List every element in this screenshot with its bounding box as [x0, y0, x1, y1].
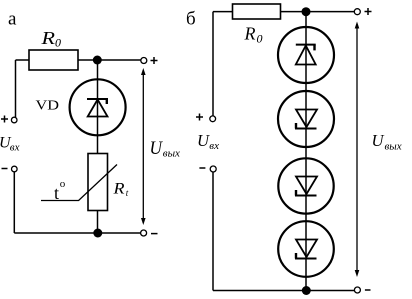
wire left vertical lower (b)	[212, 172, 214, 291]
svg-text:R: R	[244, 24, 256, 44]
wire center vertical (b)	[305, 12, 307, 291]
wire top-left (a)	[16, 59, 30, 61]
diode D2 cathode hook	[295, 123, 297, 129]
junction top (b)	[302, 7, 311, 16]
terminal + (b, right)	[354, 9, 360, 15]
diode D3 cathode hook	[295, 190, 297, 196]
label Rt	[112, 181, 128, 199]
wire left vertical lower (a)	[13, 172, 15, 233]
svg-text:U: U	[372, 131, 386, 150]
diode D4 triangle	[296, 240, 317, 258]
wire R0 to + terminal (b)	[281, 11, 355, 13]
measure line Uvyx (b)	[356, 24, 358, 274]
label R0 (a)	[40, 28, 61, 50]
measure line Uvyx (a)	[142, 70, 144, 223]
diode D4 cathode bar	[295, 258, 317, 260]
zener diode VD cathode hook	[106, 99, 108, 104]
minus sign (a, right)	[151, 233, 158, 235]
diode D2 triangle	[296, 110, 317, 128]
zener diode VD triangle	[88, 100, 108, 117]
thermistor Rt box	[88, 154, 108, 211]
svg-text:R: R	[40, 28, 55, 48]
diode D3 cathode bar	[295, 195, 317, 197]
wire left vertical upper (a)	[15, 60, 17, 117]
svg-text:t: t	[54, 183, 59, 203]
arrowhead down (a)	[141, 218, 146, 225]
terminal + (a, right)	[141, 58, 147, 64]
diode D4 cathode hook	[295, 253, 297, 259]
svg-text:0: 0	[55, 36, 61, 50]
svg-text:вх: вх	[209, 140, 219, 152]
terminal - (b, right)	[354, 287, 360, 293]
zener diode VD cathode bar	[87, 98, 108, 100]
diode D3 circle	[278, 158, 333, 213]
terminal + (a, left)	[11, 117, 17, 123]
diode D2 circle	[278, 91, 334, 147]
diode D1 cathode hook	[313, 45, 315, 51]
resistor R0 (b)	[233, 4, 281, 19]
svg-text:VD: VD	[36, 99, 60, 114]
terminal - (a, right)	[141, 230, 147, 236]
junction top (a)	[93, 56, 102, 65]
svg-text:вх: вх	[10, 141, 20, 153]
thermistor Rt diagonal	[41, 165, 117, 201]
label t (a)	[54, 178, 66, 203]
diode D1 triangle	[296, 46, 316, 65]
svg-text:R: R	[112, 181, 124, 198]
plus sign (a, left)	[1, 116, 8, 123]
terminal - (a, left)	[12, 166, 18, 172]
diode D1 cathode bar	[296, 44, 316, 46]
wire bottom (a)	[14, 232, 141, 234]
arrowhead down (b)	[355, 270, 360, 277]
arrowhead up (b)	[355, 22, 360, 29]
label Uvyx (b)	[372, 131, 402, 153]
wire top-left (b)	[213, 11, 233, 13]
plus sign (b, left)	[196, 114, 203, 121]
svg-text:вых: вых	[385, 141, 402, 153]
diode D1 circle	[278, 27, 334, 83]
svg-text:0: 0	[257, 32, 263, 46]
minus sign (b, left)	[199, 167, 205, 169]
svg-text:а: а	[8, 9, 17, 30]
resistor R0 (a)	[29, 50, 78, 70]
minus sign (a, left)	[2, 168, 8, 170]
plus sign (a, right)	[151, 57, 158, 64]
svg-text:б: б	[186, 8, 196, 29]
junction bottom (b)	[302, 286, 311, 295]
terminal - (b, left)	[210, 166, 216, 172]
diode D3 triangle	[296, 177, 317, 195]
minus sign (b, right)	[365, 289, 371, 291]
wire R0 to + terminal (a)	[78, 59, 141, 61]
label Uvx (b)	[197, 131, 219, 152]
junction bottom (a)	[93, 229, 102, 238]
arrowhead up (a)	[141, 68, 146, 75]
zener diode VD circle	[70, 79, 126, 135]
diode D4 circle	[278, 221, 334, 277]
wire center vertical lower (a)	[97, 211, 99, 234]
label Uvx (a)	[0, 135, 20, 154]
svg-text:вых: вых	[163, 147, 180, 159]
terminal + (b, left)	[210, 116, 216, 122]
label Uvyx (a)	[150, 139, 181, 159]
wire bottom (b)	[213, 290, 355, 292]
label R0 (b)	[244, 24, 263, 46]
wire center vertical upper (a)	[97, 60, 99, 154]
svg-text:U: U	[150, 139, 164, 159]
plus sign (b, right)	[365, 8, 372, 15]
svg-text:o: o	[60, 178, 66, 190]
diode D2 cathode bar	[295, 128, 317, 130]
wire left vertical upper (b)	[212, 12, 214, 116]
